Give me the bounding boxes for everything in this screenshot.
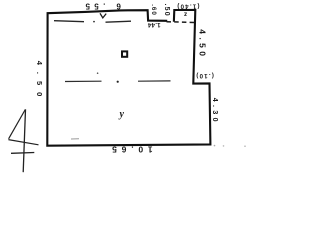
svg-text:1.44: 1.44 [147, 21, 160, 28]
inner dashed line segment A (top left) [54, 21, 84, 22]
faint dash inside bottom [71, 138, 79, 140]
svg-text:(1.40): (1.40) [176, 3, 199, 10]
svg-text:4.30: 4.30 [211, 98, 218, 125]
svg-text:4.50: 4.50 [198, 29, 208, 59]
north arrow diagonal [9, 110, 26, 139]
middle dashed line segment 2 [138, 80, 171, 82]
faint dots right of bottom corner [214, 145, 216, 147]
small square mark [122, 51, 127, 56]
svg-text:10.65: 10.65 [107, 145, 152, 155]
middle line dot [117, 81, 119, 83]
inner dashed line segment B (after V) [106, 21, 132, 22]
dashed boundary under annex box [167, 21, 196, 24]
svg-text:6 .55: 6 .55 [81, 2, 121, 11]
svg-text:y: y [119, 109, 125, 120]
inner line dot [93, 21, 95, 23]
svg-text:(.10): (.10) [195, 72, 214, 79]
north arrow bar [8, 140, 38, 145]
svg-text:.50: .50 [163, 4, 170, 17]
V mark [100, 13, 106, 18]
north arrow stem [23, 109, 25, 172]
middle dashed line segment 1 [65, 80, 102, 82]
svg-text:z: z [183, 10, 187, 17]
middle line dot small [97, 72, 99, 74]
svg-text:.60: .60 [150, 4, 157, 16]
parcel boundary outline [47, 10, 210, 146]
svg-text:4.50: 4.50 [35, 61, 44, 104]
north arrow crossbar [11, 152, 34, 155]
